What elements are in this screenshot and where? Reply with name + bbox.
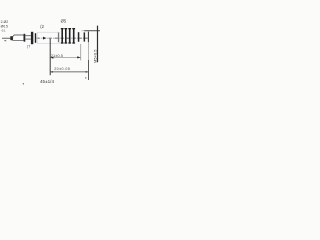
dimension line 21 <box>50 57 80 59</box>
svg-text:2-Ø2: 2-Ø2 <box>1 20 9 24</box>
svg-text:(2: (2 <box>40 24 44 29</box>
centerline dash-dot <box>37 37 89 39</box>
speck near right ext <box>85 77 86 78</box>
extension line mid <box>79 44 82 60</box>
leader arrowhead on centerline <box>43 37 46 40</box>
svg-text:21±0.5: 21±0.5 <box>51 54 63 58</box>
tube bottom line <box>25 38 31 41</box>
post bar 1 <box>78 32 80 42</box>
bushing vertical line right <box>97 26 98 63</box>
plate stub left <box>57 33 60 43</box>
speck bottom left <box>23 83 24 84</box>
svg-text:-0.1: -0.1 <box>1 28 6 32</box>
plate 1 <box>61 28 63 43</box>
svg-text:20±0.05: 20±0.05 <box>54 67 70 71</box>
disc plate small <box>35 33 36 43</box>
plate 4 <box>73 28 75 43</box>
svg-text:M5×0.5: M5×0.5 <box>92 49 97 63</box>
post bar 2 <box>84 32 86 41</box>
rotor shaft body outline <box>13 35 24 40</box>
wire left lead <box>2 37 11 40</box>
svg-text:(T: (T <box>27 44 30 48</box>
node lead collar <box>10 36 12 40</box>
extension line right end of body <box>88 32 89 43</box>
dimension line 20 <box>50 71 88 73</box>
plate 2 <box>65 28 67 43</box>
leader arrow tick <box>4 39 6 42</box>
body outline faint <box>37 32 59 43</box>
plate 3 <box>69 28 71 43</box>
disc plate large <box>31 32 33 44</box>
bushing top line <box>84 29 100 32</box>
svg-text:45±1/4: 45±1/4 <box>40 79 54 84</box>
flange plate <box>24 34 26 42</box>
tube top line <box>25 34 31 37</box>
extension line left x50 <box>50 39 51 75</box>
svg-text:Ø5: Ø5 <box>61 19 67 24</box>
